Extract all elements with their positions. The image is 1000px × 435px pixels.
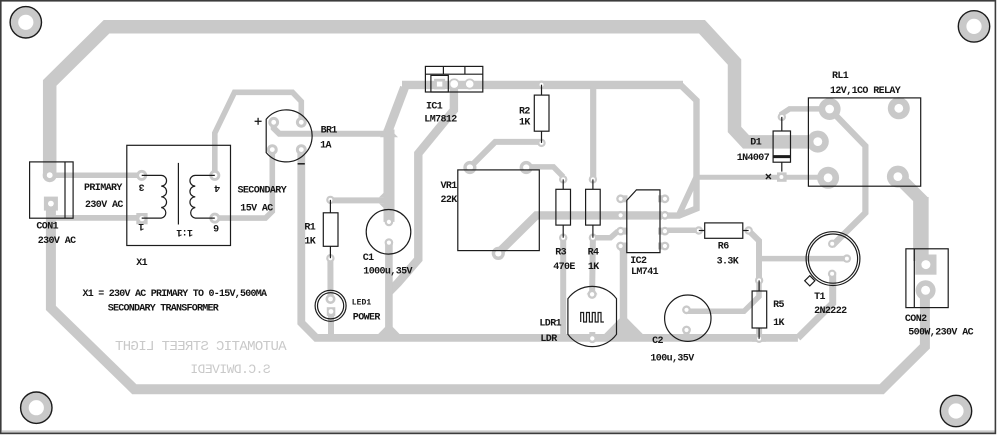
svg-text:PRIMARY: PRIMARY — [84, 183, 122, 194]
svg-text:AUTOMATIC STREET LIGHT: AUTOMATIC STREET LIGHT — [115, 339, 286, 355]
wire 12V branch down to R4 top — [590, 86, 596, 179]
wire junction up to IC1 input — [386, 88, 405, 137]
label R3 — [553, 247, 575, 273]
svg-text:230V AC: 230V AC — [38, 236, 76, 247]
LED1 pads — [326, 294, 336, 304]
label CON1 — [36, 221, 76, 247]
mounting hole top-right — [958, 11, 989, 42]
svg-text:CON2: CON2 — [905, 314, 927, 325]
junction fillet at R1 top tap — [379, 187, 389, 197]
svg-text:D1: D1 — [750, 138, 761, 149]
resistor R3 outline — [556, 179, 571, 237]
wire IC2 pin4 to ground rail — [621, 246, 624, 332]
svg-text:1000u,35V: 1000u,35V — [363, 266, 412, 277]
label T1 — [814, 292, 847, 317]
R6 pads — [695, 226, 703, 234]
svg-text:4: 4 — [214, 182, 220, 193]
wire IC2 pin6 to R6 left — [665, 227, 699, 233]
VR1 pads — [463, 161, 476, 174]
svg-text:3.3K: 3.3K — [717, 257, 739, 268]
wire R2 bottom to VR1 left pad — [470, 142, 542, 167]
wire R1 top tap — [330, 197, 385, 203]
CON1 pads — [43, 168, 57, 182]
label SECONDARY — [238, 185, 287, 214]
resistor R1 outline — [323, 200, 338, 258]
wire X1 pin6 to BR1 AC pad — [215, 146, 272, 218]
D1 pads — [778, 113, 786, 121]
C2 pads — [682, 305, 691, 314]
svg-text:12V,1CO RELAY: 12V,1CO RELAY — [830, 86, 901, 97]
junction fillet at C1 minus to rail — [378, 323, 400, 334]
wire D1 cathode run to relay pad BL — [695, 175, 828, 180]
mounting hole bottom-left — [21, 392, 52, 423]
label C1 — [363, 253, 413, 278]
wire ground rail — [301, 146, 798, 338]
svg-text:1N4007: 1N4007 — [737, 153, 770, 164]
svg-text:LED1: LED1 — [352, 299, 372, 308]
bridge rectifier BR1 outline — [266, 110, 312, 162]
svg-text:VR1: VR1 — [441, 181, 458, 192]
wire R3 bottom to ground rail — [560, 238, 566, 336]
wire C2 minus to ground rail — [684, 330, 690, 338]
note text — [83, 289, 268, 314]
wire D1 anode to relay pad TL — [782, 109, 830, 118]
R5 pads — [755, 276, 763, 284]
svg-text:2N2222: 2N2222 — [814, 306, 847, 317]
junction fillet at rail R5 — [752, 334, 766, 342]
svg-text:CON1: CON1 — [36, 221, 58, 232]
wire relay TL pad to T1 collector — [830, 109, 866, 246]
potentiometer VR1 outline — [458, 170, 540, 251]
wire R4 bottom down to LDR top — [589, 238, 596, 295]
BR1 pads — [268, 117, 279, 128]
svg-text:R4: R4 — [588, 247, 599, 258]
svg-text:1K: 1K — [304, 237, 315, 248]
wire X1 pin4 up and over to BR1 AC pad — [215, 92, 301, 177]
svg-text:IC1: IC1 — [426, 102, 443, 113]
wire ground rail right to T1 emitter — [798, 272, 833, 338]
svg-text:15V AC: 15V AC — [240, 204, 273, 215]
label RL1 — [830, 71, 901, 97]
wire LED1 cathode to ground rail — [328, 312, 334, 340]
wire R1 bottom to LED1 anode — [327, 258, 333, 299]
wire VR1 wiper diagonal to IC2 pin2 — [498, 215, 662, 253]
resistor R6 outline — [699, 223, 749, 238]
svg-text:1K: 1K — [773, 318, 784, 329]
wire R6 right to T1 base node — [749, 231, 759, 281]
transistor T1 outline — [805, 232, 860, 286]
svg-text:22K: 22K — [441, 195, 458, 206]
capacitor C2 outline — [665, 295, 711, 341]
svg-text:POWER: POWER — [353, 312, 381, 323]
svg-text:R5: R5 — [773, 300, 784, 311]
CON2 pads — [915, 255, 936, 275]
wire IC2 pin7 junction up to D1 cathode line — [680, 177, 697, 213]
svg-text:470E: 470E — [553, 262, 575, 273]
svg-text:C2: C2 — [652, 336, 663, 347]
wire mains-live: CON1 pin1 up, along top border, down to relay coil pad ML — [50, 27, 819, 178]
svg-text:230V AC: 230V AC — [85, 200, 123, 211]
R3 R4 pads — [559, 175, 567, 183]
svg-text:LM741: LM741 — [631, 267, 659, 278]
wire VR1 right pad to R3 top — [526, 167, 563, 177]
svg-text:100u,35V: 100u,35V — [650, 354, 694, 365]
label R5 — [773, 300, 784, 329]
svg-text:IC2: IC2 — [630, 256, 647, 267]
junction fillet at BR1 plus junction — [380, 128, 398, 137]
wire 12V rail: IC1 row to right elbow down to IC2 pin7 — [402, 81, 683, 89]
label R6 — [717, 241, 739, 267]
label IC1 — [424, 102, 457, 126]
svg-text:R6: R6 — [718, 241, 729, 252]
svg-text:1:1: 1:1 — [176, 226, 193, 237]
mounting hole top-left — [10, 7, 41, 38]
svg-text:LDR: LDR — [540, 334, 557, 345]
transformer X1 outline — [127, 145, 231, 245]
pad drill holes — [47, 172, 53, 178]
svg-text:500W,230V AC: 500W,230V AC — [908, 328, 973, 339]
IC1 pads — [434, 79, 445, 90]
BR1 minus mark — [298, 163, 305, 165]
wire relay BR pad to CON2 pin1 — [898, 177, 921, 260]
label CON2 — [905, 314, 974, 339]
label C2 — [650, 336, 694, 364]
diode D1 outline — [773, 117, 790, 172]
svg-text:1K: 1K — [519, 118, 530, 129]
svg-text:X1 = 230V AC PRIMARY TO 0-15V,: X1 = 230V AC PRIMARY TO 0-15V,500MA — [83, 289, 268, 300]
label PRIMARY — [84, 183, 123, 211]
svg-text:S.C.DWIVEDI: S.C.DWIVEDI — [191, 362, 271, 377]
wire mains-neutral: CON1 pin2 down, along bottom, up to CON2 pin2 — [51, 201, 925, 389]
label LDR1 — [539, 318, 561, 345]
wire CON1 pin1 to X1 pin3 — [47, 172, 142, 178]
capacitor C1 outline — [366, 210, 411, 255]
LDR1 outline — [568, 286, 617, 346]
svg-text:SECONDARY TRANSFORMER: SECONDARY TRANSFORMER — [108, 303, 219, 314]
svg-text:R3: R3 — [555, 247, 566, 258]
polarity mark X near D1 — [766, 174, 771, 179]
copper strip at bottom edge — [2, 430, 995, 433]
relay RL1 outline — [808, 98, 920, 186]
svg-text:1K: 1K — [588, 262, 599, 273]
label R1 — [304, 222, 315, 247]
junction fillet at IC2 gnd drop — [604, 315, 643, 335]
svg-text:6: 6 — [213, 221, 219, 232]
LED1 outline — [315, 290, 346, 321]
wire X1 pin1 to CON1 pin2 vertical — [52, 215, 142, 221]
IC2 pads — [616, 194, 625, 203]
label D1 — [737, 138, 770, 164]
wire C1 minus down to ground rail — [385, 242, 393, 338]
label R4 — [588, 247, 600, 273]
R2 pads — [537, 81, 545, 89]
resistor R4 outline — [586, 179, 601, 237]
wire relay BR vertical wide — [913, 197, 929, 261]
X1 pads — [136, 170, 147, 181]
mounting hole bottom-right — [940, 395, 971, 426]
wire LDR bottom to ground rail — [589, 332, 595, 340]
R1 pads — [326, 196, 334, 204]
label VR1 — [441, 181, 458, 206]
wire base node to T1 base — [759, 256, 847, 262]
svg-text:SECONDARY: SECONDARY — [238, 185, 287, 196]
C1 pads — [385, 218, 394, 227]
junction fillet at LDR top — [587, 288, 598, 294]
resistor R5 outline — [752, 280, 767, 338]
wire BR1 plus to junction — [274, 121, 389, 134]
connector CON1 outline — [30, 162, 74, 218]
connector CON2 outline — [906, 249, 948, 308]
svg-text:T1: T1 — [814, 292, 825, 303]
svg-text:RL1: RL1 — [832, 71, 849, 82]
RL1 pads — [819, 98, 841, 120]
BR1 plus mark — [255, 118, 262, 125]
wire 12V elbow down to IC2 pin7 — [663, 85, 697, 216]
svg-text:X1: X1 — [136, 258, 147, 269]
svg-text:LDR1: LDR1 — [539, 318, 561, 329]
wire R4 bottom to IC2 pin3 — [593, 231, 618, 238]
LDR pads — [588, 290, 597, 299]
label BR1 — [320, 125, 337, 151]
wire R5 bottom stub to ground rail — [756, 328, 762, 339]
svg-text:LM7812: LM7812 — [424, 115, 457, 126]
svg-text:BR1: BR1 — [321, 125, 338, 136]
wire C2 plus to base node — [687, 282, 760, 311]
op-amp IC2 outline — [627, 190, 660, 253]
svg-text:1: 1 — [138, 220, 144, 231]
svg-text:3: 3 — [139, 181, 145, 192]
wire junction down to C1 plus — [384, 130, 395, 222]
label R2 — [519, 107, 530, 129]
svg-text:1A: 1A — [320, 140, 331, 151]
wire IC1 gnd down-left to C1 minus line — [390, 86, 454, 292]
resistor R2 outline — [534, 85, 549, 143]
svg-text:C1: C1 — [363, 253, 374, 264]
label LED1 — [352, 299, 381, 324]
regulator IC1 outline — [425, 66, 482, 92]
svg-text:R1: R1 — [304, 222, 315, 233]
svg-text:R2: R2 — [519, 107, 530, 118]
T1 pads — [828, 240, 836, 248]
label IC2 — [630, 256, 658, 278]
